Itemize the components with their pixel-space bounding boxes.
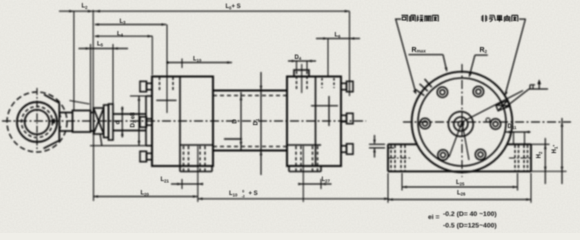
cylinder tube — [213, 91, 287, 151]
rod thread symbol box — [94, 108, 104, 134]
front cushion valve cross — [156, 99, 176, 101]
rear bottom boss — [289, 166, 321, 172]
rod eye dashed thread circle — [22, 107, 53, 138]
svg-text:-0.5 (D=125~400): -0.5 (D=125~400) — [443, 223, 497, 230]
check valve leader to angle symbol — [505, 79, 548, 107]
rear head inner line — [315, 77, 317, 167]
fork face — [58, 103, 60, 141]
rod eye bore — [25, 110, 50, 135]
R2 leader — [469, 55, 488, 78]
svg-text:D11: D11 — [508, 124, 517, 130]
cushion valve label leader — [395, 19, 416, 94]
rear top port boss — [294, 70, 309, 77]
front boss hidden holes — [184, 146, 206, 171]
rear exhaust port hidden hole — [322, 78, 334, 88]
rod eye outer ring — [17, 102, 57, 142]
rear boss hidden holes — [296, 146, 318, 171]
svg-text:D: D — [233, 119, 239, 124]
piston line — [224, 138, 242, 140]
dimension D11 — [506, 131, 531, 145]
foot step line — [388, 147, 394, 149]
front head inner line — [179, 77, 181, 167]
Rmax leader — [409, 55, 448, 72]
foot hole axes — [389, 157, 530, 159]
svg-text:-0.2 (D= 40 ~100): -0.2 (D= 40 ~100) — [443, 211, 497, 218]
exhaust valve label leader — [505, 19, 526, 96]
svg-text:L21: L21 — [161, 177, 170, 183]
cjk label adjustable cushion valve — [402, 15, 439, 21]
rod circle — [454, 117, 468, 131]
svg-text:L3: L3 — [120, 19, 127, 25]
rear head tie-rod nut top — [341, 81, 353, 91]
front head tie-rod nut bottom — [140, 151, 152, 161]
dimension L27 — [298, 179, 331, 189]
dimension L4 — [94, 35, 153, 75]
flange vertical centerline — [461, 64, 463, 177]
rod neck — [91, 113, 94, 132]
front bottom boss — [180, 166, 212, 172]
tube bore hidden lines — [213, 96, 287, 147]
bolt 120deg — [437, 87, 447, 97]
dimension L3 — [94, 23, 166, 26]
dimension D7 e8 — [90, 96, 146, 146]
rod center circle — [458, 121, 463, 126]
rear cushion valve cross — [311, 96, 338, 126]
svg-text:ei =: ei = — [428, 214, 440, 221]
exhaust check valve — [496, 100, 510, 110]
pilot hole — [486, 118, 490, 122]
foot hole left hidden — [391, 145, 405, 171]
rear head tie-rod nut bottom — [341, 144, 353, 154]
head spigot boss D7 — [146, 96, 152, 146]
svg-text:-2: -2 — [242, 195, 245, 199]
fork taper bottom — [44, 141, 60, 149]
gland chamfer — [100, 135, 102, 146]
port angle leader — [462, 91, 523, 123]
svg-text:L25: L25 — [456, 180, 465, 186]
dimension D bore — [240, 92, 243, 150]
dimension L10 — [167, 59, 232, 69]
flange inner circle — [418, 78, 506, 166]
dimension L2 — [59, 10, 95, 111]
rear boss divider — [288, 144, 321, 146]
piston rod section 2 — [113, 114, 146, 131]
rod eye phantom circle — [7, 92, 67, 152]
dimension d rod — [121, 107, 124, 138]
flange horizontal centerline — [403, 121, 571, 123]
svg-text:L27: L27 — [322, 177, 331, 183]
center boss circle — [448, 112, 473, 137]
bolt 0deg — [490, 119, 500, 129]
rear head block — [287, 77, 341, 167]
svg-text:L4: L4 — [117, 31, 124, 37]
foot thickness ei reference — [369, 135, 385, 158]
svg-text:L6: L6 — [335, 32, 342, 38]
front boss divider — [180, 144, 213, 146]
dimension D4 — [288, 60, 316, 70]
dimension L26 — [388, 173, 531, 203]
rod collar — [73, 111, 91, 133]
rear port axis — [301, 64, 303, 93]
svg-text:D7 e8: D7 e8 — [131, 112, 137, 128]
rod diameter arrows at fork — [59, 113, 62, 118]
cushion valve hatch — [415, 79, 432, 96]
dimension L5 — [79, 44, 129, 110]
svg-text:L10: L10 — [229, 191, 238, 197]
foot hole right hidden — [515, 145, 528, 171]
svg-text:L26: L26 — [457, 190, 466, 196]
front boss axis — [197, 146, 199, 202]
svg-text:L0+ S: L0+ S — [226, 4, 241, 10]
eye pin blob — [52, 119, 56, 124]
main centerline — [2, 120, 366, 122]
drain lines — [449, 122, 469, 160]
flange outer circle — [412, 72, 513, 173]
svg-text:d: d — [116, 120, 122, 124]
bolt 60deg — [473, 86, 483, 96]
svg-text:L10: L10 — [193, 57, 202, 63]
fork taper top — [44, 95, 59, 104]
piston rod section 1 — [59, 113, 72, 132]
svg-text:0: 0 — [242, 190, 244, 194]
svg-text:L20: L20 — [141, 191, 150, 197]
svg-text:D4: D4 — [295, 55, 302, 61]
dimension H2 — [531, 138, 567, 184]
front port axis — [166, 25, 168, 114]
svg-text:Rmax: Rmax — [412, 47, 427, 54]
svg-text:+ S: + S — [249, 191, 258, 197]
bolt 240deg — [438, 150, 448, 160]
rear port hidden hole D4 — [297, 71, 308, 90]
svg-text:L5: L5 — [97, 41, 104, 47]
front port hidden hole — [160, 77, 174, 90]
front head block — [152, 77, 213, 167]
bolt 300deg — [475, 149, 485, 159]
dimension D1 tube — [260, 72, 263, 175]
svg-text:H2: H2 — [537, 151, 543, 158]
front head tie-rod nut middle — [140, 117, 152, 127]
cjk label exhaust check valve — [481, 15, 518, 22]
front port axis dot — [166, 61, 169, 64]
svg-text:D1: D1 — [254, 118, 260, 125]
dimension H1 — [561, 118, 564, 184]
fork phantom edge — [70, 101, 90, 105]
dimension L10+S stroke — [198, 198, 389, 201]
dimension L6 — [316, 11, 360, 96]
eye vertical centerline — [36, 88, 38, 150]
dimension L20 — [93, 134, 198, 201]
bolt 180deg — [420, 118, 430, 128]
gland flange — [109, 104, 114, 140]
foot base plate — [388, 144, 531, 171]
dimension L25 — [402, 173, 518, 191]
rear head tie-rod nut middle — [341, 113, 353, 123]
svg-text:L2: L2 — [82, 4, 89, 10]
gland nut — [104, 105, 109, 138]
dimension L21 — [171, 179, 203, 189]
front head tie-rod nut top — [140, 81, 152, 91]
rear boss axis — [302, 146, 304, 202]
dimension L0+S — [93, 10, 349, 113]
